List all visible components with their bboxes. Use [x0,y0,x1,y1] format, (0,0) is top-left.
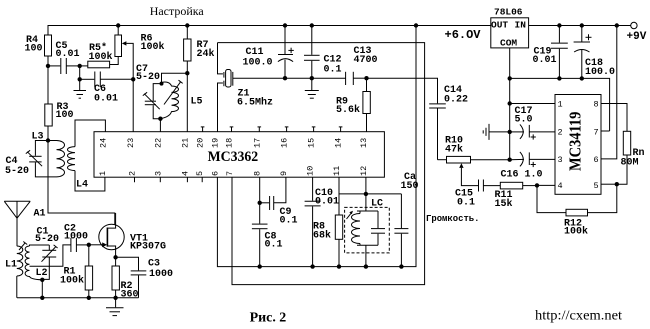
wire COM ground row [510,78,610,131]
capacitor C16 electrolytic [510,152,555,167]
svg-text:11: 11 [332,166,342,176]
svg-text:C11: C11 [246,47,264,58]
svg-text:360: 360 [121,290,139,301]
svg-text:5-20: 5-20 [136,72,160,83]
svg-text:7: 7 [594,128,599,138]
node C6 right / R6 wiper / pin23 [131,77,135,81]
wire C5 node down to C6 [79,66,81,79]
capacitor Ca [394,194,408,267]
svg-text:19: 19 [211,138,221,148]
node row/R8 [337,264,341,268]
wire pin 8 riser [259,177,261,203]
node row/LC [364,264,368,268]
node C6 left [78,77,82,81]
svg-text:17: 17 [252,138,262,148]
svg-text:100.0: 100.0 [243,58,273,69]
svg-text:1: 1 [558,100,563,110]
resistor R3 [45,66,52,141]
node C2/R1/gate [87,243,91,247]
capacitor C11 electrolytic [278,26,294,79]
svg-text:LC: LC [371,199,383,210]
wire L4 bottom to MC3362 pin 1 [75,171,105,191]
node L3 top / R3 / C4 / drain link [46,138,50,142]
antenna A1 [4,201,30,246]
pin 5 NC stub [201,177,203,182]
node C18 gnd [580,76,584,80]
wire pin5 stub [601,183,617,185]
wire L4 top to MC3362 pin 24 [75,120,105,147]
svg-text:L5: L5 [191,97,203,108]
node COM [508,76,512,80]
wire bottom ground rail [17,297,139,299]
node rail/C19 [557,23,561,27]
pin 14 NC stub [339,127,343,132]
svg-text:100k: 100k [564,226,588,238]
node gnd/C17 [508,130,512,134]
inductor L4 [68,147,75,171]
node pin8/C9/C8 [258,201,262,205]
wire pin 21 riser [186,73,188,132]
crystal Z1 [218,43,286,132]
svg-text:24: 24 [98,138,108,148]
svg-text:L4: L4 [76,180,88,191]
LC tank dashed box [345,207,390,253]
node C13/R9 [364,76,368,80]
inductor L1 [17,246,23,276]
svg-text:0.01: 0.01 [94,94,118,105]
svg-text:KP307G: KP307G [130,242,166,253]
wire pin4 stub [537,184,555,186]
node +6V rail / R7 [185,23,189,27]
svg-text:15k: 15k [495,198,513,210]
svg-text:16: 16 [280,138,290,148]
svg-text:2: 2 [558,128,563,138]
capacitor C9 [260,177,286,210]
capacitor C13 [346,72,367,85]
node pin4/R11 [535,183,539,187]
capacitor C19 [551,26,568,79]
inductor L3 [48,141,65,177]
node R7 / tank / pin 21 [185,71,189,75]
svg-text:8: 8 [253,171,263,176]
svg-text:L1: L1 [5,260,17,271]
wire tank bottom to ground rail [41,280,43,298]
wire L1 bottom to ground rail [16,276,18,298]
node C11 bottom [283,76,287,80]
pin 15 NC stub [312,127,316,132]
node L2/C1 bottom [40,278,44,282]
node row/Ca [399,264,403,268]
pin 20 NC stub [201,127,205,132]
svg-text:5: 5 [195,171,205,176]
node gnd/R10/C16 [508,158,512,162]
inductor L2 [25,246,42,280]
wire L2 top to C2 [30,245,50,246]
node C19 gnd [557,76,561,80]
svg-text:6.5Mhz: 6.5Mhz [237,97,273,109]
svg-text:+9V: +9V [627,31,647,43]
wire quad row pin12 [339,177,401,211]
pin 2 NC stub [134,177,136,182]
resistor R11 [500,182,537,189]
svg-text:0.01: 0.01 [533,55,557,66]
svg-text:15: 15 [307,138,317,148]
terminal +9V [631,22,637,28]
capacitor C12 [304,26,320,79]
svg-text:5.0: 5.0 [515,115,533,126]
svg-text:24k: 24k [197,48,215,60]
svg-text:0.01: 0.01 [315,197,339,208]
inductor LC coil [347,211,379,246]
svg-text:OUT: OUT [491,20,508,31]
svg-text:A1: A1 [34,209,46,220]
svg-text:COM: COM [500,38,517,49]
svg-text:0.1: 0.1 [457,198,475,209]
svg-text:80М: 80М [621,158,639,169]
resistor R8 [335,177,342,266]
svg-text:0.1: 0.1 [280,216,298,227]
op-amp U1 MC3362 body [94,132,384,178]
resistor R2 [112,257,119,298]
wire bottom bypass row [217,26,416,267]
svg-text:0.1: 0.1 [265,240,283,251]
svg-text:1000: 1000 [149,269,173,280]
resistor R6 potentiometer [115,26,122,57]
capacitor C2 [30,238,89,266]
resistor R5* [80,57,119,68]
node +6V rail / C11 [283,23,287,27]
svg-text:L3: L3 [32,132,44,143]
capacitor C17 electrolytic [510,124,555,139]
core arrow of L1/L2 [19,242,27,251]
capacitor C14 [429,104,446,160]
svg-text:1000: 1000 [64,232,88,243]
resistor R10 volume potentiometer [438,156,510,163]
svg-text:4700: 4700 [354,55,378,66]
svg-text:5: 5 [594,181,599,191]
wiper of R10 [459,163,478,185]
node +6V rail / riser to bottom row [414,23,418,27]
capacitor C4 variable [26,141,57,177]
svg-text:100: 100 [25,44,43,55]
wire ground column [509,78,511,159]
svg-text:47k: 47k [445,144,463,156]
resistor Rn headphone [617,131,631,184]
resistor R1 [85,245,92,298]
svg-text:4: 4 [180,171,190,176]
capacitor C10 [305,177,321,266]
wire pin 22 riser to tank node [159,119,161,132]
capacitor C15 [479,180,501,192]
wire pin8 to Rn [601,104,627,132]
svg-text:http://cxem.net: http://cxem.net [535,309,622,324]
node row/C8 [258,264,262,268]
capacitor C7 variable [143,84,162,119]
capacitor C1 variable [42,245,58,280]
node rail/R1 [87,296,91,300]
capacitor C3 [116,257,147,298]
svg-text:6: 6 [594,155,599,165]
svg-text:Рис. 2: Рис. 2 [250,311,287,326]
svg-text:IN: IN [515,20,527,31]
svg-text:MC34119: MC34119 [566,112,585,171]
svg-text:3: 3 [558,155,563,165]
wire pin6 riser to +9V [601,26,617,159]
svg-text:5-20: 5-20 [5,166,29,177]
ground below C12 [305,78,319,98]
wire node to MC3362 pin 23 [132,79,134,131]
svg-text:78L06: 78L06 [494,7,523,18]
svg-text:100k: 100k [89,51,113,63]
pin 17 NC stub [258,127,262,132]
wiper of R6 [122,41,133,79]
svg-text:0.01: 0.01 [56,49,80,60]
node row/C10 [310,264,314,268]
svg-text:3: 3 [153,171,163,176]
svg-text:100k: 100k [141,41,165,53]
node tank top [160,82,164,86]
svg-text:100.0: 100.0 [585,67,615,78]
wire pin7 stub MC34119 [601,130,610,132]
capacitor LC cap [371,211,385,245]
svg-text:5-20: 5-20 [35,234,59,245]
node R4/C5/R3 junction [46,64,50,68]
svg-text:22: 22 [153,138,163,148]
svg-text:20: 20 [196,138,206,148]
wire +6V top rail [48,26,491,36]
svg-text:10: 10 [306,166,316,176]
core mark of L5 [164,80,183,104]
svg-text:Настройка: Настройка [150,4,205,18]
capacitor C18 electrolytic [574,26,592,79]
wire crystal top loop [218,43,425,285]
node gnd/pin1 [508,101,512,105]
node VT1 source [113,255,117,259]
svg-text:Громкость.: Громкость. [426,213,480,224]
svg-text:14: 14 [334,138,344,148]
pin 3 NC stub [159,177,161,182]
wire drain link from L3 node down to VT1 drain [48,141,115,225]
svg-text:MC3362: MC3362 [208,149,259,165]
node +6V rail / C12 [310,23,314,27]
wire audio out to C14 [367,78,438,103]
svg-text:18: 18 [225,138,235,148]
resistor R7 [184,26,191,74]
resistor R9 [363,78,370,132]
svg-text:6: 6 [210,171,220,176]
node C12 bottom [310,76,314,80]
svg-text:100: 100 [56,110,74,121]
node pin5/Rn/R12 [615,182,619,186]
svg-text:12: 12 [359,166,369,176]
svg-text:+6.OV: +6.OV [445,28,482,42]
resistor R4 [45,35,52,66]
svg-text:L2: L2 [36,268,48,279]
node rail/C18 [580,23,584,27]
node rail/L2 [40,296,44,300]
wire pin1 stub MC34119 [510,103,555,105]
svg-text:23: 23 [126,138,136,148]
node pin 12 [364,192,368,196]
wire tank top to R7 node [162,73,188,83]
voltage regulator U3 78L06 [491,18,529,79]
svg-text:C3: C3 [148,259,160,270]
svg-text:8: 8 [594,100,599,110]
svg-text:5.6k: 5.6k [336,104,360,116]
svg-text:9: 9 [279,171,289,176]
svg-text:C16 1.0: C16 1.0 [501,170,543,181]
wire LC tank down [365,245,367,266]
wire IF row [285,77,346,79]
ground left-pointing [483,124,510,140]
svg-text:2: 2 [128,171,138,176]
svg-text:150: 150 [401,181,419,192]
svg-text:4: 4 [558,181,563,191]
pin 18 NC stub [230,127,234,132]
ground below C6 node [74,79,87,98]
ground main [106,298,124,316]
svg-text:1: 1 [98,171,108,176]
node rail/pin6 riser [615,23,619,27]
svg-text:100k: 100k [60,275,84,287]
wire R12 loop left [537,185,566,212]
svg-text:68k: 68k [313,230,331,242]
wire +9V rail [529,25,631,27]
pin 4 NC stub [186,177,188,182]
svg-text:0.1: 0.1 [324,65,342,76]
resistor R12 [566,184,617,216]
node +6V rail / R6 [116,23,120,27]
op-amp U2 MC34119 body [555,95,601,195]
svg-text:0.22: 0.22 [444,95,468,106]
svg-text:21: 21 [180,138,190,148]
node tank bottom / pin 22 [158,117,162,121]
transistor VT1 KP307G [89,213,124,257]
inductor L5 [160,82,178,119]
svg-text:7: 7 [225,171,235,176]
svg-text:13: 13 [359,138,369,148]
pin 16 NC stub [285,127,289,132]
node C5/R5* junction [78,64,82,68]
node rail/R2/ground [113,296,117,300]
capacitor C5 [48,58,80,74]
capacitor C8 [252,203,268,267]
capacitor C6 [80,72,134,88]
